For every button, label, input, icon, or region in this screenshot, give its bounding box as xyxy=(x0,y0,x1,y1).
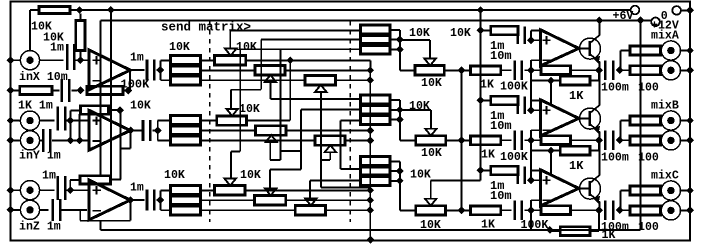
master pot A 10K xyxy=(415,66,444,75)
mix stack A 10K xyxy=(360,25,389,54)
op-amp mixB xyxy=(541,100,579,136)
resistor 10K top xyxy=(39,6,70,13)
wire emitter A xyxy=(598,62,600,71)
wire Z1 wiper xyxy=(230,152,232,179)
input row 1K: wire xyxy=(11,89,20,91)
wire ground vertical xyxy=(640,20,642,230)
wire Y apex link xyxy=(130,131,132,149)
capacitor 1m inY xyxy=(57,107,60,131)
capacitor 100m C xyxy=(595,206,603,214)
wire Y fb vertical xyxy=(119,110,121,179)
feedback resistor 100K Y xyxy=(70,109,80,111)
node Z apex xyxy=(127,196,135,204)
resistor 100 B1 xyxy=(630,116,661,125)
wire X fb to apex xyxy=(129,70,131,91)
wire inX to rail xyxy=(29,10,31,51)
node Y fb xyxy=(116,107,124,115)
jack A2 xyxy=(661,69,662,71)
capacitor 1m X out xyxy=(146,60,149,81)
svg-text:10K: 10K xyxy=(410,169,431,182)
op-amp UY xyxy=(89,110,130,150)
wire rail1 drop x111 xyxy=(110,10,112,179)
wire minus bus A xyxy=(530,81,532,101)
capacitor 100m A xyxy=(595,66,603,74)
svg-text:1K: 1K xyxy=(569,159,584,173)
wire X1 wiper xyxy=(229,30,231,48)
node A- xyxy=(527,66,535,74)
svg-text:send matrix>: send matrix> xyxy=(161,20,251,34)
node Y send xyxy=(154,127,162,135)
svg-text:10K: 10K xyxy=(169,41,190,54)
svg-text:10K: 10K xyxy=(420,219,441,232)
wire jackX to cap xyxy=(40,59,64,61)
feedback resistor 100K C xyxy=(531,209,541,211)
svg-text:1m: 1m xyxy=(50,42,64,55)
svg-text:10K: 10K xyxy=(240,169,261,182)
pot X1 10K xyxy=(215,56,246,65)
feedback resistor 100K Z xyxy=(70,179,80,181)
node rail1-Rv xyxy=(76,6,84,14)
jack A1 xyxy=(661,50,662,52)
node stack B r3 xyxy=(396,116,404,124)
feedback resistor 100K A xyxy=(531,69,541,71)
send matrix dashed border right xyxy=(349,21,351,222)
wire jackZ to cap xyxy=(40,189,55,191)
svg-text:+12V: +12V xyxy=(651,20,679,33)
node X- xyxy=(77,87,85,95)
node Z row1 xyxy=(366,186,374,194)
wire out branch up A xyxy=(620,51,622,71)
svg-text:10m: 10m xyxy=(490,189,512,203)
wire collector C xyxy=(598,140,600,175)
jack B2 xyxy=(661,139,662,141)
svg-text:mixB: mixB xyxy=(651,100,679,113)
power connector 0V xyxy=(672,6,681,15)
feedback resistor 1K B xyxy=(531,150,560,152)
svg-text:100m: 100m xyxy=(601,82,629,95)
capacitor 1m Y out xyxy=(142,120,145,141)
wire Y3 wiper xyxy=(329,152,331,160)
input jack inZ xyxy=(20,181,39,200)
resistor 100 C2 xyxy=(630,206,661,215)
send stack Z 10K xyxy=(170,186,200,215)
svg-text:10K: 10K xyxy=(409,27,430,40)
transistor QA xyxy=(580,38,601,59)
wire collector B xyxy=(598,70,600,105)
wire Z fb right xyxy=(111,178,121,180)
node B- xyxy=(527,136,535,144)
pot Y1 10K xyxy=(217,116,247,125)
svg-text:1m: 1m xyxy=(42,170,56,183)
wire stackC to potC xyxy=(399,181,401,211)
resistor Rv 10K vertical xyxy=(76,21,85,51)
bias feed B xyxy=(477,97,485,105)
wire Z3 wiper xyxy=(309,181,311,199)
wire Y apex to cap xyxy=(131,130,142,132)
capacitor 1m inY xyxy=(40,139,42,141)
+12V rail wire xyxy=(100,19,651,21)
wire potC wiper xyxy=(430,180,432,198)
pot Z3 10K xyxy=(295,206,325,215)
svg-text:100: 100 xyxy=(638,221,659,234)
svg-text:10K: 10K xyxy=(421,77,442,90)
wire Z row2 xyxy=(201,199,255,201)
wire stackB3-stackC1 link xyxy=(339,120,341,169)
wire X3 wiper xyxy=(320,92,322,160)
node rail2-gnd xyxy=(637,17,645,25)
node stack A r2 xyxy=(396,36,404,44)
jack B1 xyxy=(661,120,662,122)
pot X3 10K xyxy=(305,76,336,85)
node X fb xyxy=(124,87,132,95)
capacitor 100m B xyxy=(595,136,603,144)
node B+ xyxy=(527,106,535,114)
wire collector A xyxy=(598,20,600,35)
node Z send xyxy=(156,196,164,204)
wire potB wiper xyxy=(430,110,432,129)
wire rail2 left drop xyxy=(99,20,101,175)
wire minus bus B xyxy=(530,151,532,171)
wire Z apex drop xyxy=(129,200,131,221)
feedback resistor 100K X xyxy=(87,86,123,94)
svg-text:100K: 100K xyxy=(500,81,528,94)
svg-text:1m: 1m xyxy=(130,181,144,194)
input jack inY xyxy=(20,131,39,150)
wire Y row2 xyxy=(201,130,256,132)
wire potA wiper xyxy=(429,40,431,59)
resistor 10K bias A xyxy=(491,26,518,35)
node A+ xyxy=(527,36,535,44)
capacitor 1m inZ xyxy=(57,176,60,200)
capacitor 1m bias C xyxy=(516,166,519,184)
wire jackY to cap xyxy=(40,120,55,122)
svg-text:inY 1m: inY 1m xyxy=(19,149,61,162)
svg-text:10m: 10m xyxy=(490,49,512,63)
Z minus loop xyxy=(79,210,81,221)
node C- xyxy=(527,206,535,214)
node X send xyxy=(156,66,164,74)
node fb link B xyxy=(547,147,555,155)
svg-text:10K: 10K xyxy=(409,100,430,113)
bias feed C xyxy=(477,167,485,175)
svg-text:10K: 10K xyxy=(421,147,442,160)
resistor 10K bias C xyxy=(491,166,518,175)
node rail1-bias xyxy=(477,6,485,14)
wire mix bus xyxy=(461,70,463,210)
svg-text:10K: 10K xyxy=(239,103,260,116)
node fb link A xyxy=(547,77,555,85)
resistor 1K mix B xyxy=(471,136,501,145)
wire X row3 xyxy=(201,79,305,81)
node Y+ input xyxy=(66,117,74,125)
svg-text:1K: 1K xyxy=(481,148,495,161)
wire emitter C xyxy=(598,202,600,211)
wire minus bus C xyxy=(530,221,532,230)
node Z+ input xyxy=(66,186,74,194)
wire Y2 wiper xyxy=(269,142,271,160)
svg-text:inZ 1m: inZ 1m xyxy=(19,221,61,234)
node mix bus C xyxy=(446,209,471,211)
svg-text:100K: 100K xyxy=(121,78,151,92)
feedback resistor 100K B xyxy=(531,139,541,141)
svg-text:10K: 10K xyxy=(450,27,471,40)
capacitor 1m Z out xyxy=(146,190,149,211)
resistor 100 A2 xyxy=(630,66,661,75)
svg-text:10K: 10K xyxy=(130,99,151,112)
node C+ xyxy=(527,176,535,184)
input jack inZ xyxy=(20,200,39,219)
node stack A r3 xyxy=(396,46,404,54)
capacitor 1m inX xyxy=(66,44,69,70)
resistor 100 B2 xyxy=(630,136,661,145)
wire Y1 wiper xyxy=(230,90,232,109)
wire emitter B xyxy=(598,132,600,141)
wire Z row1 xyxy=(201,189,215,191)
power connector +6V xyxy=(631,6,640,15)
ground rail bottom xyxy=(101,229,641,231)
node Y+ up link xyxy=(69,110,71,140)
feedback resistor 1K A xyxy=(531,80,560,82)
capacitor 1m input X xyxy=(61,79,64,102)
svg-text:1K: 1K xyxy=(569,89,584,103)
wire Y row3 xyxy=(201,140,315,142)
wire Y fb right xyxy=(109,109,120,111)
wire X apex to cap xyxy=(130,69,144,71)
resistor 1K input X xyxy=(20,86,52,94)
svg-text:+6V: +6V xyxy=(613,10,634,23)
+6V rail wire xyxy=(30,9,39,11)
resistor 1K mix C xyxy=(471,206,501,215)
pot X2 10K xyxy=(255,66,285,75)
capacitor 1m inZ xyxy=(40,209,49,211)
svg-text:10m: 10m xyxy=(490,119,512,133)
svg-text:10K: 10K xyxy=(236,41,257,54)
wire X row1 xyxy=(201,59,215,61)
op-amp UZ xyxy=(89,180,130,220)
master pot C 10K xyxy=(416,206,446,215)
svg-text:100m: 100m xyxy=(601,221,629,234)
resistor 100 C1 xyxy=(630,186,661,195)
svg-text:1K: 1K xyxy=(481,219,495,232)
wire X2 wiper xyxy=(270,82,272,99)
node rail1 x111 xyxy=(107,6,115,14)
input jack inX xyxy=(20,51,39,70)
capacitor 10m minus C xyxy=(501,209,512,211)
node Y apex xyxy=(127,127,135,135)
wire Z row3 xyxy=(201,209,296,211)
wire Y row1 xyxy=(201,120,217,122)
node mix bus B xyxy=(446,139,471,141)
node Z+ down link xyxy=(69,180,71,190)
pot Y3 10K xyxy=(315,136,345,145)
X minus stub xyxy=(87,81,89,91)
input jack inY xyxy=(20,111,39,130)
wire Z2 wiper xyxy=(269,170,271,189)
power connector +12V xyxy=(651,18,660,27)
pot Z2 10K xyxy=(255,196,286,205)
send matrix dashed border left xyxy=(209,21,211,222)
svg-text:mixC: mixC xyxy=(651,170,679,183)
jack C2 xyxy=(661,209,662,211)
feedback resistor 1K C xyxy=(546,226,554,234)
send stack Y 10K xyxy=(170,116,200,145)
pot Z1 10K xyxy=(214,186,245,195)
resistor 1K mix A xyxy=(471,66,501,75)
node stack B r2 xyxy=(396,106,404,114)
wire stackA to potA xyxy=(399,49,401,70)
wire out branch up C xyxy=(620,191,622,211)
bias feed A xyxy=(477,27,485,35)
wire col2 to stackB xyxy=(300,110,302,170)
svg-text:1K 1m: 1K 1m xyxy=(18,100,53,113)
svg-text:100: 100 xyxy=(638,82,659,95)
node X row1 xyxy=(286,56,294,64)
jack C1 xyxy=(661,190,662,192)
node stack C r3 xyxy=(396,177,404,185)
svg-text:10K: 10K xyxy=(164,169,185,182)
op-amp mixC xyxy=(541,170,579,206)
svg-text:inX 10m: inX 10m xyxy=(19,71,68,84)
capacitor 1m bias B xyxy=(516,96,519,114)
mix stack B 10K xyxy=(360,95,389,124)
wire Z apex to cap xyxy=(130,199,144,201)
transistor QB xyxy=(580,108,601,129)
capacitor 10m minus B xyxy=(501,139,512,141)
send stack X 10K xyxy=(170,56,200,85)
wire X row2 xyxy=(201,69,255,71)
svg-text:1m: 1m xyxy=(130,52,144,65)
svg-text:100m: 100m xyxy=(601,152,629,165)
svg-text:100K: 100K xyxy=(500,151,528,164)
svg-text:1K: 1K xyxy=(480,79,494,92)
master pot B 10K xyxy=(416,136,446,145)
svg-text:100K: 100K xyxy=(521,219,549,232)
wire Y fb drop xyxy=(79,114,81,140)
node X+ input xyxy=(76,56,84,64)
capacitor 10m minus A xyxy=(501,69,512,71)
node stack C r2 xyxy=(396,167,404,175)
wire stackB to potB xyxy=(399,120,401,141)
pot Y2 10K xyxy=(256,126,287,135)
op-amp UX xyxy=(89,50,130,90)
wire bias vertical xyxy=(480,10,482,180)
wire matrix ground drop xyxy=(369,70,371,240)
svg-text:100: 100 xyxy=(638,152,659,165)
resistor 10K bias B xyxy=(491,96,518,105)
capacitor 1m bias A xyxy=(516,26,519,44)
wire out branch up B xyxy=(620,121,622,141)
resistor 100 A1 xyxy=(630,46,661,55)
node mix bus A xyxy=(444,69,470,71)
op-amp mixA xyxy=(541,30,579,66)
mix stack C 10K xyxy=(360,156,389,185)
node rail2-QA xyxy=(595,17,603,25)
transistor QC xyxy=(580,178,601,199)
wire gnd stub xyxy=(100,221,102,230)
